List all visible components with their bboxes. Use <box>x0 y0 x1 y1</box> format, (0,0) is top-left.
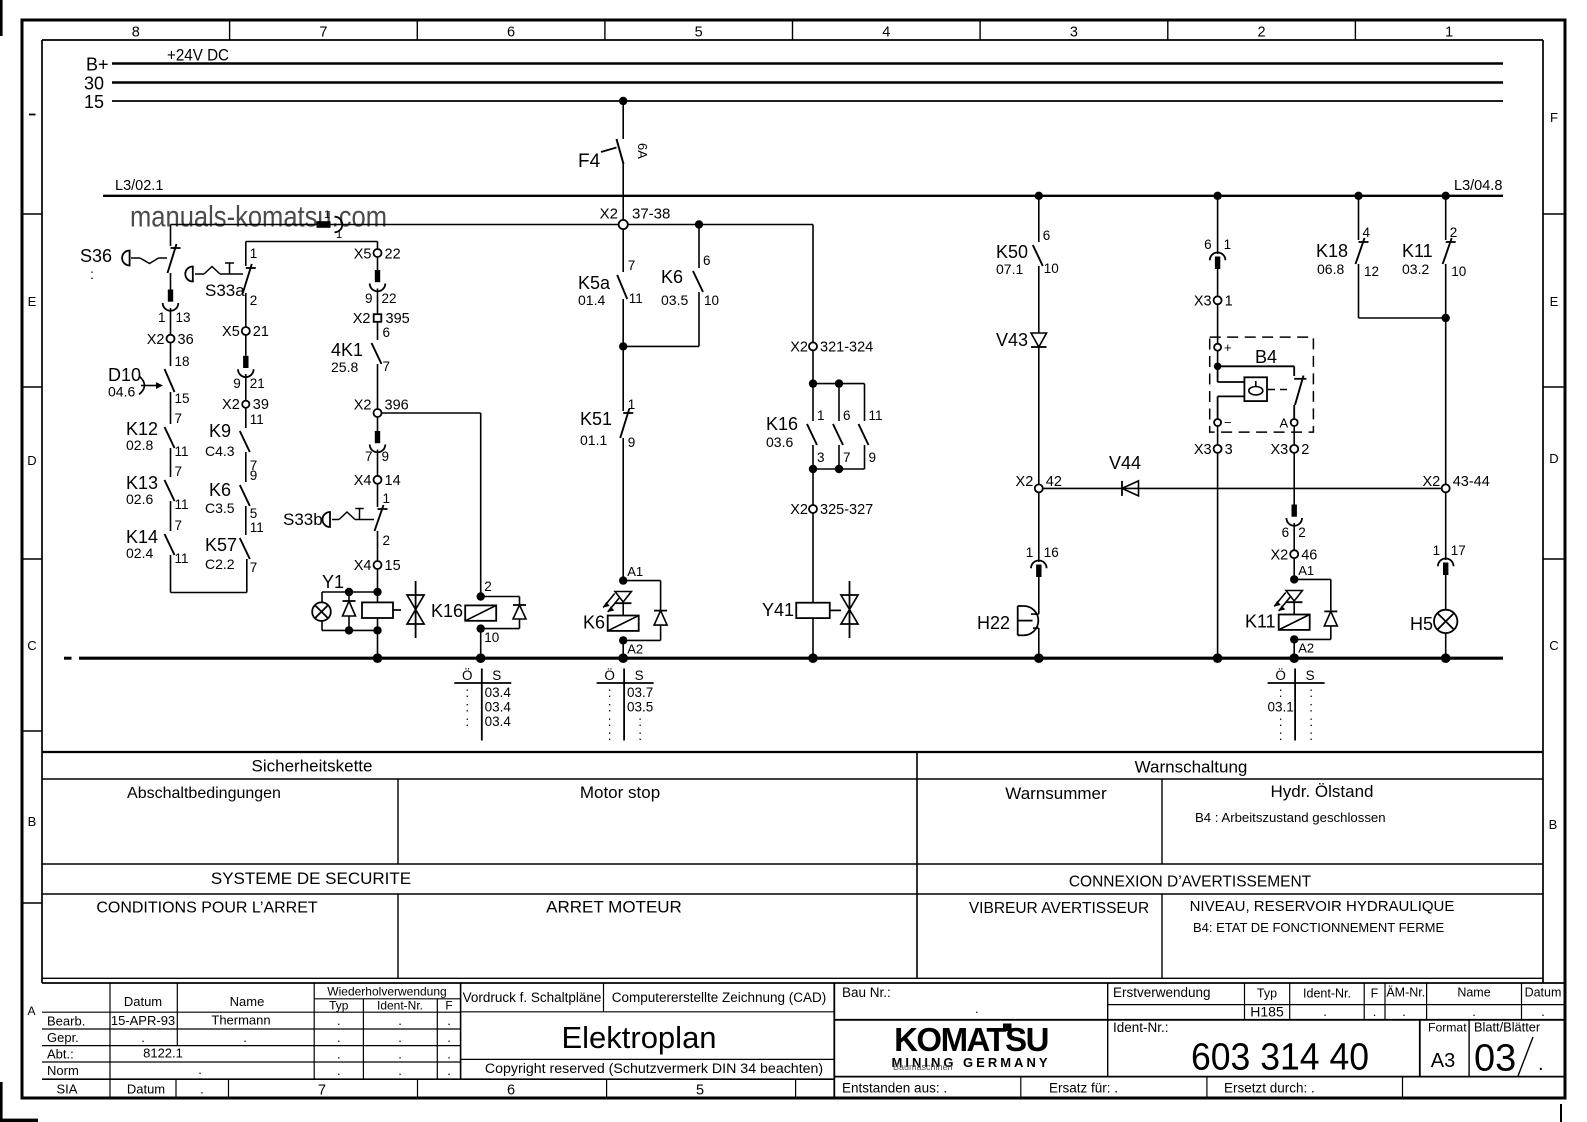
bus junction x=480.7 <box>476 653 486 663</box>
wire S36 to plug <box>170 273 172 290</box>
svg-text:K57: K57 <box>205 535 237 555</box>
svg-text:B4 : Arbeitszustand geschlosse: B4 : Arbeitszustand geschlossen <box>1195 810 1386 825</box>
sensor B4 enclosure <box>1210 337 1314 432</box>
svg-text:Sicherheitskette: Sicherheitskette <box>252 757 373 776</box>
pushbutton S33a <box>205 242 257 309</box>
wire X2.42 to plug <box>1038 492 1040 562</box>
bus label 15 <box>84 92 104 112</box>
wire H5 to bus <box>1445 633 1447 658</box>
svg-text:36: 36 <box>178 332 194 348</box>
wire to K14 <box>170 501 172 531</box>
title block center texts <box>463 990 827 1077</box>
svg-text::: : <box>1279 714 1283 729</box>
wire S33a to X5.21 <box>245 293 247 327</box>
wire rail corner down <box>812 225 814 343</box>
svg-text:Gepr.: Gepr. <box>47 1030 79 1045</box>
svg-text:.: . <box>141 1030 145 1045</box>
top border zone numbers <box>132 25 1453 41</box>
contact K9 <box>205 421 257 473</box>
svg-text:1: 1 <box>1026 545 1034 560</box>
scan artifact top-left <box>0 0 3 36</box>
connector X3.2 <box>1270 442 1309 458</box>
svg-text:6: 6 <box>1043 228 1051 243</box>
svg-text:C3.5: C3.5 <box>205 500 235 516</box>
svg-text:Typ: Typ <box>329 999 349 1013</box>
svg-text:X2: X2 <box>353 311 371 327</box>
svg-text::: : <box>1309 700 1313 715</box>
bus junction x=1294.2 <box>1289 653 1299 663</box>
S36 actuator <box>122 251 167 266</box>
svg-text:Datum: Datum <box>1525 986 1562 1000</box>
suppressor diode K16 <box>481 597 526 629</box>
left border zone dividers <box>22 214 42 903</box>
svg-text:Y41: Y41 <box>762 600 794 620</box>
left border row letters <box>27 115 36 1019</box>
wire X3.1 to B4 <box>1217 304 1219 343</box>
contact K51 <box>580 409 635 450</box>
svg-text:03.6: 03.6 <box>766 434 793 450</box>
svg-text:6: 6 <box>507 1083 515 1099</box>
coil K11 <box>1245 603 1310 632</box>
svg-text:X5: X5 <box>354 247 372 263</box>
svg-text:X2: X2 <box>222 397 240 413</box>
bus label 30 <box>84 74 104 94</box>
contact K16 11-9 <box>859 408 883 469</box>
svg-text:S33a: S33a <box>205 281 245 300</box>
contact K50 <box>996 242 1059 277</box>
svg-text:325-327: 325-327 <box>820 502 873 518</box>
svg-text:1: 1 <box>324 209 330 221</box>
svg-text:603 314 40: 603 314 40 <box>1191 1037 1369 1079</box>
node K16 contacts bottom <box>809 465 865 473</box>
svg-text:Ö: Ö <box>462 668 473 683</box>
svg-text:Ident-Nr.: Ident-Nr. <box>1303 987 1351 1001</box>
plug connector 1/17 <box>1433 543 1466 575</box>
svg-text:Ident-Nr.: Ident-Nr. <box>377 999 423 1013</box>
svg-text:A: A <box>27 1004 35 1018</box>
svg-text:B4: B4 <box>1255 347 1277 367</box>
wire K11 to X2.43-44 <box>1445 264 1447 484</box>
svg-text:A2: A2 <box>627 642 643 657</box>
svg-text:396: 396 <box>385 398 409 414</box>
wire to H5 <box>1445 575 1447 610</box>
pressure switch D10 <box>108 365 190 406</box>
suppressor diode Y1 <box>343 592 356 630</box>
svg-text:9: 9 <box>250 468 258 483</box>
svg-text:SIA: SIA <box>57 1082 78 1097</box>
wire to plug 9/21 <box>245 335 247 356</box>
svg-text:5: 5 <box>696 1083 704 1099</box>
svg-text:7: 7 <box>175 464 183 479</box>
svg-text:C4.3: C4.3 <box>205 443 235 459</box>
svg-text:.: . <box>337 1013 341 1028</box>
suppressor diode K6 <box>623 581 667 641</box>
plug connector 1/16 <box>1026 545 1059 577</box>
svg-text:.: . <box>447 1030 451 1045</box>
svg-text:K51: K51 <box>580 409 612 429</box>
svg-text:25.8: 25.8 <box>331 359 358 375</box>
svg-text:11: 11 <box>250 520 264 535</box>
svg-text:B: B <box>28 814 37 829</box>
connector X2.396 <box>354 398 409 418</box>
wire to X3.1 <box>1217 269 1219 296</box>
svg-text:F: F <box>445 999 452 1013</box>
contact K12 <box>126 411 189 459</box>
contact K16 6-7 <box>833 384 851 469</box>
wire K16 coil to bus <box>480 629 482 659</box>
contact K14 <box>126 518 189 566</box>
svg-text:C2.2: C2.2 <box>205 556 235 572</box>
node K11 A2 <box>1290 635 1314 655</box>
svg-text:1: 1 <box>1445 25 1453 41</box>
svg-text:10: 10 <box>1044 261 1059 276</box>
svg-text:4: 4 <box>882 25 890 41</box>
svg-text:K11: K11 <box>1245 612 1276 632</box>
node Y1 top <box>322 588 382 596</box>
contact K11 2-10 <box>1402 238 1466 279</box>
wire to K13 <box>170 448 172 477</box>
bus junction x=1217.6 <box>1213 653 1223 663</box>
svg-text:S: S <box>635 668 644 683</box>
svg-text:11: 11 <box>175 551 189 566</box>
function table frame <box>42 752 1543 978</box>
svg-text::: : <box>465 700 469 715</box>
svg-text:.: . <box>975 1001 979 1016</box>
connector X5.22 <box>354 247 401 263</box>
breaker F4 <box>578 139 624 172</box>
svg-text:A2: A2 <box>1298 641 1314 656</box>
svg-text:15: 15 <box>175 391 190 406</box>
wire F4 lower <box>622 164 624 221</box>
svg-text:3: 3 <box>1225 442 1233 458</box>
connector X5.21 <box>222 324 269 340</box>
connector X2.46 <box>1270 548 1317 564</box>
node L3 K11 <box>1442 192 1450 200</box>
svg-text:2: 2 <box>383 533 391 548</box>
svg-text:X2: X2 <box>147 332 165 348</box>
svg-text:03.5: 03.5 <box>627 700 653 715</box>
svg-text:6: 6 <box>1282 525 1290 540</box>
svg-text:K14: K14 <box>126 527 158 547</box>
svg-text:6: 6 <box>383 325 391 340</box>
wire X2 37-38 rail <box>171 224 814 226</box>
function table headers french <box>96 869 1454 935</box>
function table headers german <box>127 757 1386 826</box>
bottom bus stub <box>64 657 72 660</box>
svg-text:Ersetzt durch: .: Ersetzt durch: . <box>1224 1081 1315 1096</box>
svg-text::: : <box>638 714 642 729</box>
svg-text:37-38: 37-38 <box>632 206 670 223</box>
wire to 4K1 <box>378 322 391 340</box>
wire to X2.325-327 <box>812 469 814 505</box>
wire K18 to K11 line <box>1359 264 1450 322</box>
svg-text:K9: K9 <box>209 421 231 441</box>
svg-text:.: . <box>337 1047 341 1062</box>
wire to X4.14 <box>377 450 379 476</box>
wire horn to bus <box>1033 628 1039 658</box>
svg-text::: : <box>608 728 612 743</box>
svg-text:11: 11 <box>250 412 264 427</box>
svg-text:14: 14 <box>385 473 401 489</box>
svg-text:1: 1 <box>250 246 258 261</box>
svg-text:S36: S36 <box>80 246 112 266</box>
svg-text:11: 11 <box>175 497 189 512</box>
svg-text:2: 2 <box>250 293 258 308</box>
svg-text:7: 7 <box>628 258 636 273</box>
svg-text:Norm: Norm <box>47 1063 79 1078</box>
svg-text:46: 46 <box>1301 548 1317 564</box>
indicator LED K6 <box>603 592 631 613</box>
node K6 A1 <box>619 564 643 585</box>
coil K16 <box>465 605 496 620</box>
svg-text:15-APR-93: 15-APR-93 <box>111 1013 175 1028</box>
svg-text:C: C <box>27 638 36 653</box>
svg-text:X3: X3 <box>1270 442 1288 458</box>
bus junction x=377.5 <box>373 653 383 663</box>
crossref table K16 <box>454 668 511 741</box>
svg-text:B+: B+ <box>86 55 109 75</box>
B4 internal wiring <box>1218 366 1295 419</box>
svg-text:5: 5 <box>250 506 258 521</box>
node Y1 bottom <box>322 626 382 634</box>
svg-text:1: 1 <box>817 408 825 423</box>
svg-text:F: F <box>1371 987 1379 1001</box>
svg-text:B: B <box>1549 817 1558 832</box>
svg-text:Warnsummer: Warnsummer <box>1005 784 1107 803</box>
title block grid <box>22 983 1565 1098</box>
B4 terminal minus <box>1214 415 1231 430</box>
svg-text:X2: X2 <box>1016 474 1034 490</box>
connector X2 37-38 <box>600 206 671 230</box>
wire F4 upper <box>622 101 624 139</box>
svg-text:K13: K13 <box>126 473 158 493</box>
svg-text:Hydr. Ölstand: Hydr. Ölstand <box>1271 782 1374 801</box>
plug connector 9/22 <box>365 270 397 306</box>
bus junction x=1445.7 <box>1441 653 1451 663</box>
bus junction x=813 <box>808 653 818 663</box>
svg-text:9: 9 <box>382 449 390 464</box>
svg-text:.: . <box>447 1013 451 1028</box>
wire to K12 <box>170 392 172 424</box>
svg-text:Entstanden aus: .: Entstanden aus: . <box>842 1081 947 1096</box>
svg-text:Warnschaltung: Warnschaltung <box>1135 758 1248 777</box>
wire K5a to node <box>622 299 624 346</box>
svg-text:02.4: 02.4 <box>126 545 153 561</box>
contact K18 <box>1316 238 1379 279</box>
svg-text:Y1: Y1 <box>322 572 344 592</box>
pushbutton S36 <box>80 244 181 282</box>
svg-text:7: 7 <box>175 518 183 533</box>
svg-text:−: − <box>1224 415 1232 430</box>
lamp Y1 <box>312 572 344 630</box>
svg-text:.: . <box>1538 1053 1544 1075</box>
svg-text:A: A <box>1280 416 1289 431</box>
svg-text:8: 8 <box>132 25 140 41</box>
svg-text:6: 6 <box>843 408 851 423</box>
wire to K9 <box>246 408 264 428</box>
svg-text:X2: X2 <box>1422 474 1440 490</box>
bus B+ <box>112 62 1503 64</box>
svg-text:.: . <box>398 1030 402 1045</box>
indicator LED K11 <box>1274 591 1302 612</box>
svg-text:+: + <box>1224 340 1232 355</box>
svg-text:K16: K16 <box>431 601 463 621</box>
svg-text:E: E <box>1550 294 1559 309</box>
wire to plug 1/17 <box>1445 492 1447 560</box>
wire to X2.36 <box>170 308 172 335</box>
wire to X2.39 <box>245 374 247 401</box>
svg-text:Name: Name <box>230 994 265 1009</box>
svg-text:6: 6 <box>1204 237 1212 252</box>
svg-text:1: 1 <box>1433 543 1441 558</box>
svg-text::: : <box>1309 728 1313 743</box>
svg-text:+24V DC: +24V DC <box>167 46 229 65</box>
svg-text:F4: F4 <box>578 151 601 172</box>
wire S36 drop <box>170 225 172 247</box>
svg-text:06.8: 06.8 <box>1317 261 1344 277</box>
svg-text:2: 2 <box>1298 525 1306 540</box>
top border zone dividers <box>230 20 1356 40</box>
svg-text:D: D <box>1549 451 1558 466</box>
svg-text:16: 16 <box>1044 545 1059 560</box>
diode V43 <box>996 330 1047 350</box>
svg-text:K12: K12 <box>126 419 158 439</box>
svg-text:03.5: 03.5 <box>661 292 688 308</box>
svg-text:X5: X5 <box>222 324 240 340</box>
contact K16 1-3 <box>807 384 825 469</box>
svg-text:SYSTEME DE SECURITE: SYSTEME DE SECURITE <box>211 869 411 888</box>
svg-text:Typ: Typ <box>1257 987 1277 1001</box>
B4 terminal + <box>1214 340 1231 355</box>
B4 internal switch <box>1294 376 1306 420</box>
connector X2.42 <box>1016 474 1062 492</box>
svg-text:Elektroplan: Elektroplan <box>561 1020 716 1055</box>
svg-text:13: 13 <box>176 310 191 325</box>
wire K6 to node <box>619 292 699 351</box>
wire K50 drop <box>1039 196 1051 243</box>
svg-text:15: 15 <box>84 92 104 112</box>
svg-text:K6: K6 <box>583 613 605 633</box>
svg-text:X2: X2 <box>790 502 808 518</box>
scan artifact bottom-left <box>0 1082 38 1122</box>
svg-text:X2: X2 <box>1270 548 1288 564</box>
svg-text:03: 03 <box>1474 1038 1516 1080</box>
svg-text:9: 9 <box>869 450 877 465</box>
svg-text::: : <box>1309 685 1313 700</box>
svg-text:43-44: 43-44 <box>1453 474 1490 490</box>
wire X2.42 to X2.43-44 <box>1043 487 1442 489</box>
wire K57 down <box>246 559 248 561</box>
svg-text:S: S <box>1306 668 1315 683</box>
svg-text::: : <box>90 266 94 282</box>
svg-text:.: . <box>447 1047 451 1062</box>
svg-text:Datum: Datum <box>124 994 162 1009</box>
connector X2.325-327 <box>790 502 873 518</box>
svg-text:3: 3 <box>1070 25 1078 41</box>
contact K6 03.5 <box>661 267 719 308</box>
watermark manuals-komatsu.com <box>130 201 387 234</box>
label K16 contacts <box>766 414 798 450</box>
scan artifact bottom-right <box>1560 1104 1562 1122</box>
wire K18 drop <box>1359 196 1371 240</box>
title block left texts <box>47 985 704 1099</box>
svg-text:1: 1 <box>1224 237 1232 252</box>
svg-text:7: 7 <box>319 25 327 41</box>
svg-text:.: . <box>1373 1004 1377 1019</box>
coil K6 <box>583 604 639 633</box>
svg-text:7: 7 <box>365 449 373 464</box>
svg-text:02.8: 02.8 <box>126 437 153 453</box>
svg-text:.: . <box>1402 1004 1406 1019</box>
svg-text::: : <box>608 700 612 715</box>
svg-text:D10: D10 <box>108 365 141 385</box>
contact K13 <box>126 464 189 512</box>
svg-text:K11: K11 <box>1402 241 1433 261</box>
svg-text::: : <box>465 685 469 700</box>
wire K51 to K6 coil <box>622 438 624 581</box>
svg-text:03.7: 03.7 <box>627 685 653 700</box>
svg-text:15: 15 <box>385 558 401 574</box>
svg-text:.: . <box>243 1030 247 1045</box>
svg-text:321-324: 321-324 <box>820 340 873 356</box>
svg-text::: : <box>1309 714 1313 729</box>
svg-text:5: 5 <box>695 25 703 41</box>
wire branch to K16 coil <box>382 413 481 597</box>
svg-text:21: 21 <box>253 324 269 340</box>
svg-text:2: 2 <box>1301 442 1309 458</box>
wire to K11 coil <box>1293 558 1295 579</box>
connector X2.321-324 <box>790 340 873 356</box>
wire to plug 9/22 <box>377 257 379 270</box>
wire chain U-link <box>171 555 247 593</box>
connector X4.15 <box>354 558 401 574</box>
svg-text:Wiederholverwendung: Wiederholverwendung <box>327 985 446 999</box>
svg-text:03.2: 03.2 <box>1402 261 1429 277</box>
svg-text:6A: 6A <box>635 143 650 159</box>
valve symbol K16 <box>407 581 463 638</box>
connector X2.395 <box>353 311 410 327</box>
svg-text:KOMATSU: KOMATSU <box>894 1021 1048 1058</box>
svg-text:4K1: 4K1 <box>331 340 363 360</box>
connector X4.14 <box>354 473 401 489</box>
node L3 B4 <box>1213 192 1221 200</box>
svg-text:K6: K6 <box>209 480 231 500</box>
svg-text:D: D <box>27 453 36 468</box>
svg-text:X2: X2 <box>790 340 808 356</box>
svg-text:Computererstellte Zeichnung (C: Computererstellte Zeichnung (CAD) <box>612 990 827 1005</box>
svg-text:A1: A1 <box>1298 563 1314 578</box>
wire K11 coil to bus <box>1293 639 1295 658</box>
label 6A rotated <box>635 143 650 159</box>
svg-text::: : <box>1279 728 1283 743</box>
wire B4 drop <box>1217 196 1219 254</box>
svg-text:.: . <box>398 1063 402 1078</box>
node L3 K50 <box>1035 192 1043 200</box>
svg-text:C: C <box>1549 638 1558 653</box>
bus 30 <box>112 81 1503 83</box>
B4 mech link dashed <box>1268 389 1290 391</box>
svg-text:Abschaltbedingungen: Abschaltbedingungen <box>127 785 281 802</box>
connector X2.43-44 <box>1422 474 1489 492</box>
svg-text:.: . <box>1472 1004 1476 1019</box>
plug connector 6/1 <box>1204 237 1231 269</box>
svg-text:X2: X2 <box>354 398 372 414</box>
svg-text:S33b: S33b <box>283 510 323 529</box>
bus label B+ <box>86 55 109 75</box>
horn H22 <box>977 606 1038 635</box>
svg-text:Vordruck f. Schaltpläne: Vordruck f. Schaltpläne <box>463 990 602 1005</box>
svg-text:.: . <box>1323 1004 1327 1019</box>
